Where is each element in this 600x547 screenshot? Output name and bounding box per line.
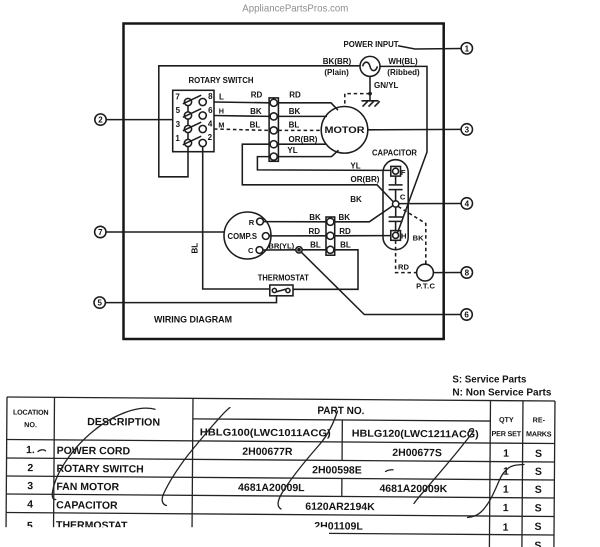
svg-text:1: 1: [503, 448, 509, 460]
svg-text:PART NO.: PART NO.: [317, 405, 364, 417]
svg-text:3: 3: [176, 120, 181, 129]
svg-text:2: 2: [27, 462, 33, 474]
row 3 FAN MOTOR: [27, 480, 542, 496]
svg-text:COMP.S: COMP.S: [228, 231, 258, 241]
wire node 7 to compressor: [106, 231, 225, 233]
svg-text:6: 6: [208, 106, 213, 115]
node 7: [95, 226, 106, 237]
node ground junction dot: [368, 92, 372, 96]
wire YL connector to motor: [278, 150, 338, 156]
svg-text:2H00677R: 2H00677R: [242, 446, 293, 458]
rotary switch S1: [173, 76, 254, 152]
svg-text:BK(BR): BK(BR): [323, 57, 352, 66]
header QTY PER SET: [492, 415, 522, 438]
wire junction to node 6: [301, 252, 461, 315]
wire dashed motor frame to ground: [345, 94, 370, 107]
svg-text:L: L: [219, 92, 224, 101]
wire RD connector to capacitor H: [335, 235, 391, 237]
svg-text:CAPACITOR: CAPACITOR: [372, 149, 417, 158]
capacitor plates F-C: [389, 176, 403, 201]
node 2: [95, 114, 106, 125]
thermostat TH1: [258, 274, 309, 296]
svg-text:BK: BK: [350, 195, 362, 204]
svg-text:MARKS: MARKS: [526, 429, 552, 438]
svg-text:BK: BK: [289, 107, 301, 116]
wire capacitor C to node 4: [399, 203, 461, 205]
svg-text:WIRING DIAGRAM: WIRING DIAGRAM: [154, 315, 232, 325]
capacitor terminal H: [391, 231, 407, 241]
PTC R1: [416, 264, 435, 290]
node 6: [461, 309, 472, 320]
svg-text:S: S: [535, 484, 542, 496]
pen mark through QTY column: [468, 465, 525, 518]
svg-text:7: 7: [98, 228, 103, 237]
svg-text:2H00598E: 2H00598E: [312, 464, 362, 476]
switch contact 1-2: [183, 136, 201, 145]
svg-text:BK: BK: [309, 213, 321, 222]
wire YL branch to capacitor F: [257, 157, 390, 171]
svg-text:4681A20009K: 4681A20009K: [379, 483, 447, 495]
wire RD rotary L to connector: [214, 101, 269, 104]
switch contact 7-8: [183, 95, 201, 104]
pin 5: [176, 106, 192, 119]
svg-text:BL: BL: [340, 241, 351, 250]
svg-text:RD: RD: [289, 91, 301, 100]
wire BR(YL) compressor C to junction: [263, 249, 296, 251]
svg-text:1: 1: [503, 522, 509, 534]
wire common strap pins 7-5-3-1: [187, 106, 189, 140]
wire PTC to node 8: [433, 272, 461, 274]
wire BK compressor R to connector: [264, 221, 327, 223]
svg-text:THERMOSTAT: THERMOSTAT: [258, 274, 309, 283]
svg-text:RE-: RE-: [533, 415, 546, 424]
wire BL rotary M to connector (dashed): [214, 129, 269, 130]
svg-text:S: S: [535, 502, 542, 514]
row 5 THERMOSTAT: [27, 517, 542, 536]
svg-text:7: 7: [175, 93, 180, 102]
wire pin 2 BL drop to thermostat: [203, 147, 270, 289]
svg-text:BR(YL): BR(YL): [268, 242, 294, 251]
pen mark through HBLG100 header: [162, 408, 230, 506]
svg-text:CAPACITOR: CAPACITOR: [56, 499, 118, 511]
svg-text:F: F: [401, 168, 406, 177]
scan cut-off mask bottom left: [0, 527, 328, 547]
svg-text:6120AR2194K: 6120AR2194K: [305, 501, 375, 514]
wire RD compressor S to connector: [269, 235, 326, 237]
wire OR(BR) branch to capacitor C: [242, 144, 393, 202]
svg-text:BL: BL: [250, 121, 261, 130]
svg-text:YL: YL: [287, 146, 297, 155]
svg-text:2: 2: [98, 116, 103, 125]
header LOCATION NO.: [13, 408, 49, 430]
svg-text:BK: BK: [250, 107, 262, 116]
connector J1 strip: [269, 98, 278, 161]
svg-text:PER SET: PER SET: [492, 429, 522, 438]
svg-text:LOCATION: LOCATION: [13, 408, 48, 417]
wire thermostat to node 5: [105, 296, 276, 303]
wire OR(BR) connector to motor: [278, 143, 325, 145]
svg-text:MOTOR: MOTOR: [325, 125, 366, 135]
parts table grid: [6, 397, 555, 547]
capacitor C1 body: [372, 149, 417, 250]
label WH(BL) (Ribbed): [387, 57, 420, 77]
wire motor to node 3: [368, 128, 461, 130]
pen tick row1: [38, 450, 46, 452]
node junction (test point): [296, 247, 302, 253]
svg-text:FAN MOTOR: FAN MOTOR: [56, 481, 119, 493]
compressor terminal S: [262, 233, 269, 240]
wire BK connector to motor: [278, 115, 327, 117]
svg-text:H: H: [401, 232, 406, 241]
svg-text:HBLG100(LWC1011ACG): HBLG100(LWC1011ACG): [200, 427, 331, 439]
label BK(BR) (Plain): [323, 57, 352, 77]
svg-text:OR(BR): OR(BR): [351, 175, 380, 184]
wire RD dashed capacitor H to PTC: [396, 240, 417, 272]
pen mark through part no column 2: [414, 429, 474, 504]
svg-text:4: 4: [465, 200, 470, 209]
pin 4: [199, 120, 213, 133]
svg-text:1: 1: [175, 134, 180, 143]
svg-text:3: 3: [27, 480, 33, 492]
pen mark through part no column 1: [278, 411, 337, 509]
wire BK rotary H to connector: [214, 115, 269, 118]
svg-text:H: H: [219, 106, 224, 115]
pin 8: [199, 92, 213, 106]
svg-text:GN/YL: GN/YL: [374, 81, 399, 90]
svg-text:8: 8: [465, 269, 470, 278]
compressor terminal R: [249, 218, 264, 227]
svg-text:WH(BL): WH(BL): [388, 57, 418, 66]
wire power input to node 1: [398, 46, 461, 49]
svg-text:R: R: [249, 218, 255, 227]
svg-text:RD: RD: [339, 227, 351, 236]
wire BK dashed capacitor C to PTC: [398, 207, 426, 265]
svg-text:POWER CORD: POWER CORD: [57, 445, 131, 458]
pen mark through DESCRIPTION column: [52, 408, 155, 499]
node 1: [461, 43, 472, 54]
node 3: [461, 124, 472, 135]
svg-text:5: 5: [176, 106, 181, 115]
svg-text:NO.: NO.: [24, 420, 37, 429]
capacitor terminal F: [391, 166, 406, 177]
ground symbol: [362, 101, 380, 107]
capacitor terminal C: [393, 192, 406, 207]
svg-text:S: S: [535, 521, 542, 533]
svg-text:N: Non Service Parts: N: Non Service Parts: [452, 386, 551, 398]
pin 6: [199, 106, 213, 119]
svg-text:(Plain): (Plain): [324, 68, 349, 77]
connector J2 strip: [326, 217, 335, 255]
svg-text:1.: 1.: [26, 444, 35, 456]
svg-text:1: 1: [465, 44, 470, 53]
svg-text:1: 1: [503, 484, 509, 496]
svg-text:BK: BK: [413, 234, 424, 243]
motor M1 (FAN MOTOR): [321, 107, 368, 154]
svg-text:YL: YL: [350, 161, 360, 170]
svg-text:5: 5: [97, 299, 102, 308]
svg-text:S: S: [534, 540, 541, 547]
svg-text:BL: BL: [289, 120, 300, 129]
compressor M2 (COMP): [224, 212, 271, 259]
svg-text:POWER INPUT: POWER INPUT: [344, 40, 399, 49]
svg-text:BK: BK: [339, 213, 351, 222]
diagram border frame: [124, 24, 444, 340]
node 4: [461, 198, 472, 209]
svg-text:S: Service Parts: S: Service Parts: [452, 373, 526, 385]
wire WH(BL) power to capacitor H: [380, 66, 427, 232]
svg-text:BL: BL: [310, 240, 321, 249]
svg-text:3: 3: [465, 126, 470, 135]
svg-text:RD: RD: [251, 91, 263, 100]
row 4 CAPACITOR: [27, 499, 542, 515]
power source U-PWR (POWER INPUT): [344, 40, 399, 76]
svg-text:2: 2: [208, 133, 213, 142]
wire BL connector to motor (dashed): [278, 129, 321, 131]
wire BL connector to thermostat: [293, 250, 358, 289]
svg-text:S: S: [535, 448, 542, 460]
wire BK(BR) power feed to rotary switch pin 1: [159, 66, 360, 177]
svg-text:4: 4: [208, 120, 213, 129]
svg-text:P.T.C: P.T.C: [416, 281, 435, 290]
compressor terminal C: [248, 246, 263, 255]
svg-text:4681A20009L: 4681A20009L: [238, 482, 305, 494]
svg-text:OR(BR): OR(BR): [289, 135, 318, 144]
node 8: [461, 267, 472, 278]
row 2 ROTARY SWITCH: [27, 462, 542, 478]
switch contact 5-6: [183, 109, 201, 118]
switch contact 3-4: [183, 122, 201, 131]
svg-text:C: C: [248, 246, 254, 255]
wire node 2 to rotary switch: [106, 119, 173, 121]
svg-text:8: 8: [208, 92, 213, 101]
pen tick small: [386, 470, 394, 472]
svg-text:M: M: [218, 120, 224, 129]
capacitor plates C-H: [389, 207, 403, 230]
svg-text:ROTARY SWITCH: ROTARY SWITCH: [189, 76, 254, 85]
svg-text:RD: RD: [398, 263, 409, 272]
wire ground stem: [369, 77, 371, 101]
pin 2: [199, 133, 212, 146]
wire BL junction to connector: [302, 249, 326, 251]
wire BK connector to capacitor C: [335, 206, 393, 222]
wire RD connector to motor: [278, 103, 338, 110]
svg-text:BL: BL: [191, 243, 200, 254]
node 5: [94, 297, 105, 308]
svg-text:6: 6: [464, 311, 469, 320]
pin 1: [175, 134, 191, 147]
svg-text:C: C: [400, 192, 406, 201]
svg-text:AppliancePartsPros.com: AppliancePartsPros.com: [242, 3, 348, 15]
svg-text:QTY: QTY: [499, 415, 514, 424]
svg-text:RD: RD: [309, 227, 321, 236]
svg-text:ROTARY SWITCH: ROTARY SWITCH: [56, 463, 143, 476]
pin 3: [176, 120, 192, 133]
svg-text:HBLG120(LWC1211ACG): HBLG120(LWC1211ACG): [352, 429, 479, 441]
pin 7: [175, 93, 191, 106]
header RE-MARKS: [526, 415, 552, 438]
svg-text:2H00677S: 2H00677S: [392, 447, 442, 459]
svg-text:1: 1: [503, 502, 509, 514]
row 1 POWER CORD: [26, 444, 542, 460]
svg-text:(Ribbed): (Ribbed): [387, 68, 420, 77]
svg-text:4: 4: [27, 499, 33, 511]
svg-text:S: S: [535, 466, 542, 478]
